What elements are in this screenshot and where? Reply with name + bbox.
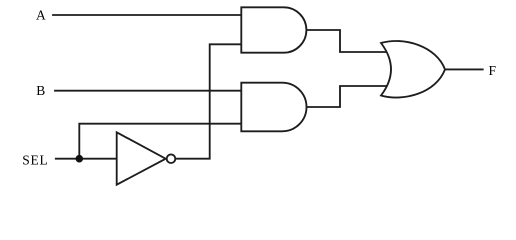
svg-text:A: A (36, 8, 46, 23)
wire B input (55, 90, 241, 92)
wire AND1 output to OR input (306, 30, 391, 52)
inverter U4 triangle (117, 132, 166, 184)
wire SEL input (56, 158, 117, 160)
wire inverter output to AND1 lower input (176, 44, 242, 158)
wire A input (53, 14, 241, 16)
or-gate U3 (381, 41, 445, 98)
wire AND2 output to OR input (306, 86, 391, 107)
inverter U4 bubble (167, 154, 176, 163)
svg-text:SEL: SEL (22, 153, 48, 168)
svg-text:B: B (36, 83, 45, 98)
wire OR output to F (445, 68, 483, 70)
and-gate U1 (A AND NOT SEL) (241, 7, 306, 52)
svg-text:F: F (489, 63, 497, 78)
and-gate U2 (B AND SEL) (241, 83, 306, 132)
wire SEL branch up to AND2 (79, 124, 241, 159)
node SEL junction dot (76, 155, 84, 163)
